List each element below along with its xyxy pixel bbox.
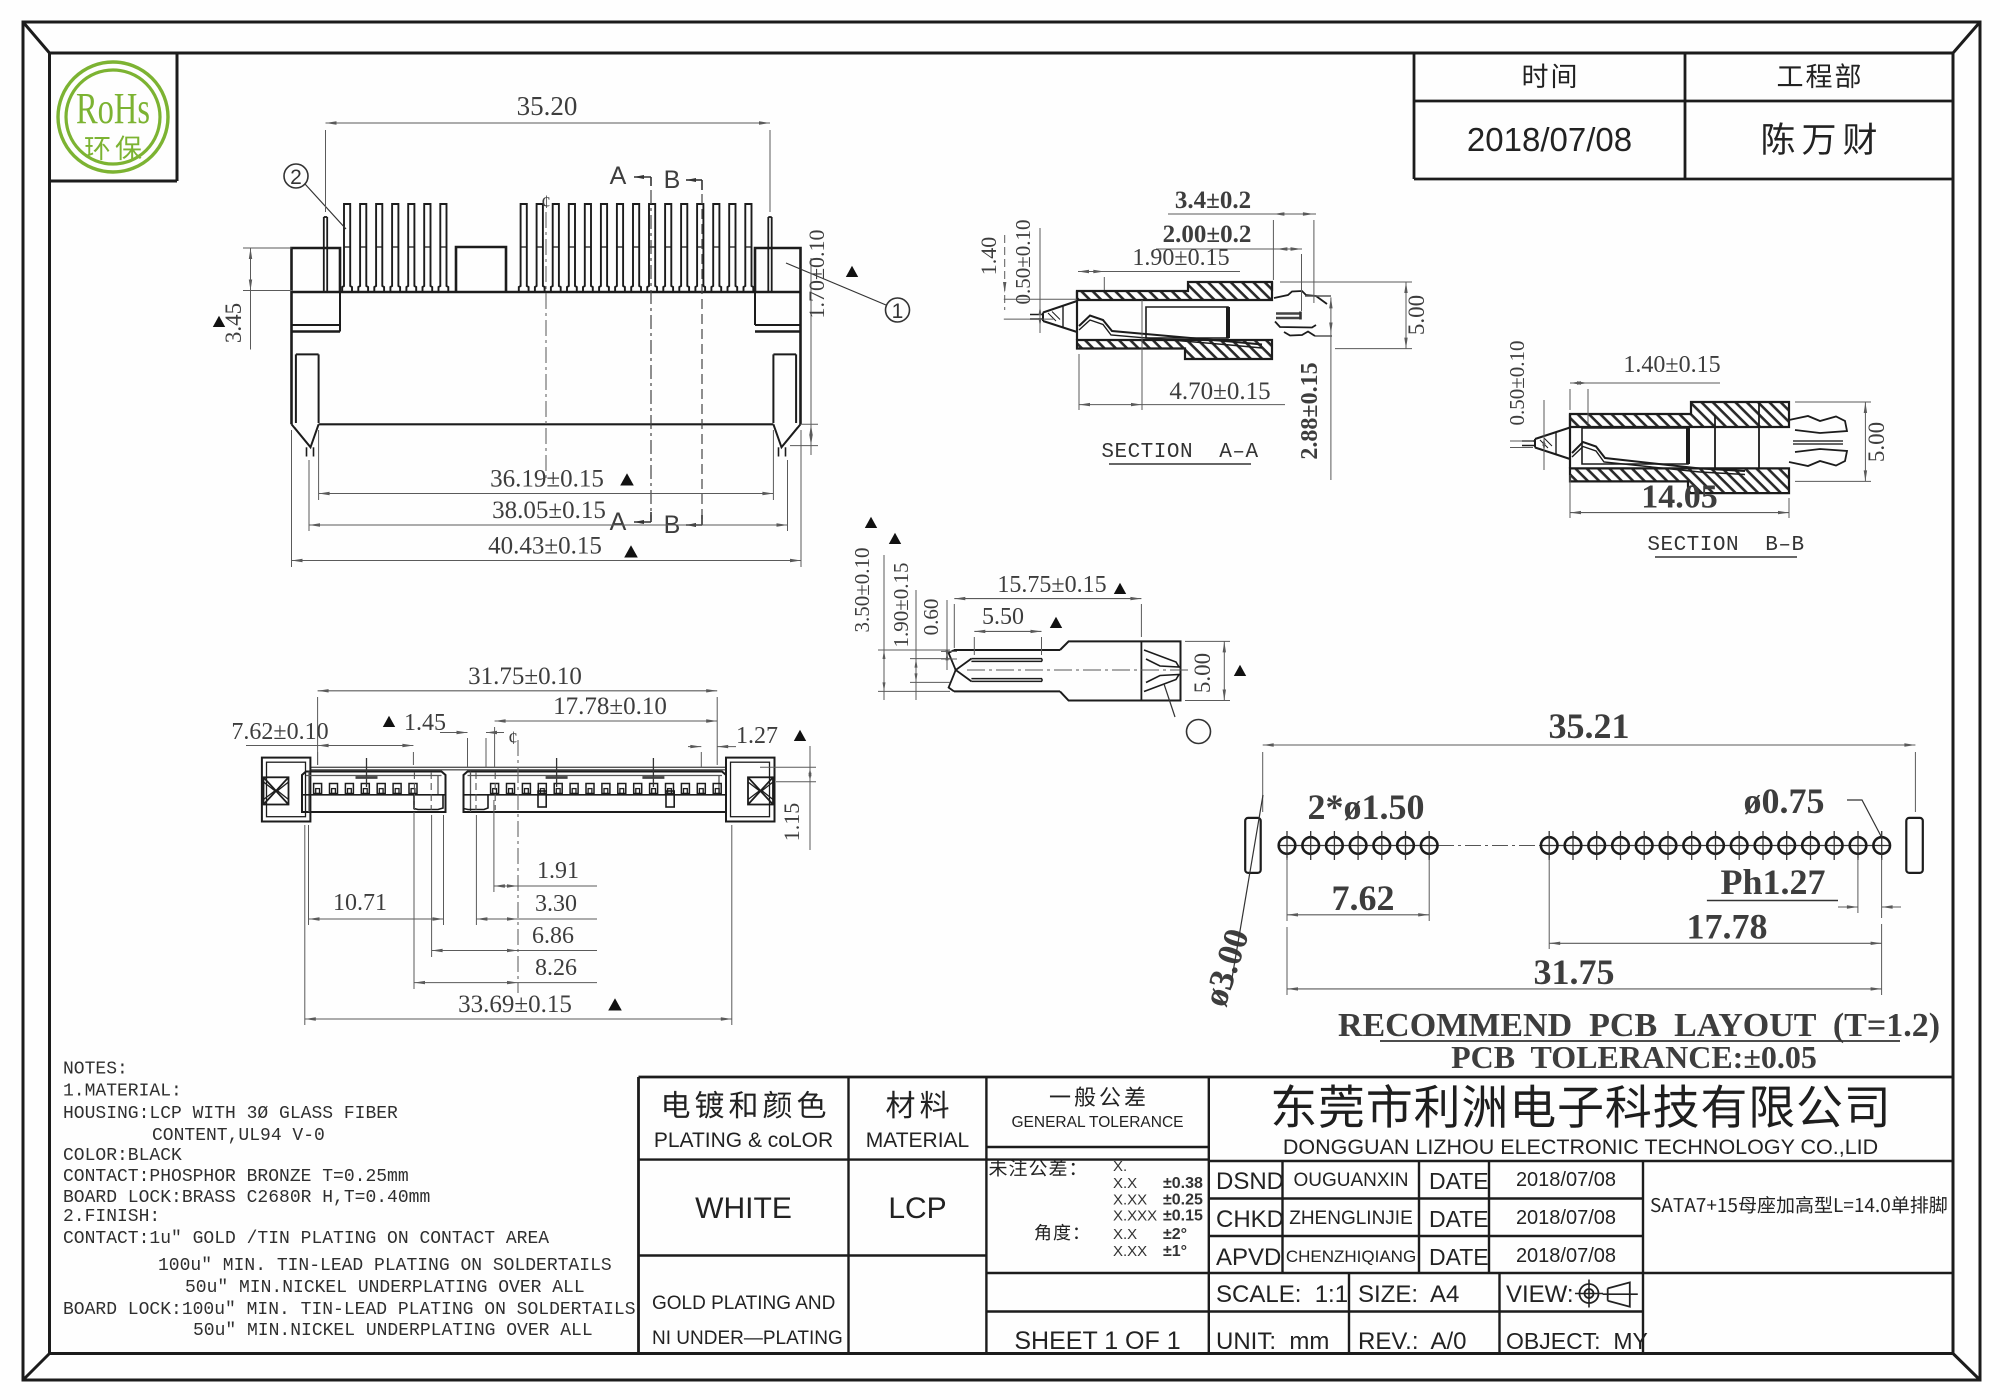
svg-text:REV.: A/0: REV.: A/0 (1358, 1328, 1467, 1355)
bottom view centerline (517, 740, 519, 993)
svg-text:3.4±0.2: 3.4±0.2 (1175, 187, 1251, 214)
svg-text:±0.38: ±0.38 (1163, 1175, 1203, 1192)
pcb dim 17.78 (1548, 858, 1550, 949)
svg-text:CONTACT:1u" GOLD /TIN PLATING: CONTACT:1u" GOLD /TIN PLATING ON CONTACT… (63, 1229, 549, 1249)
bv dim 33.69±0.15 (304, 825, 306, 1025)
svg-text:1.90±0.15: 1.90±0.15 (889, 562, 913, 647)
svg-text:0.50±0.10: 0.50±0.10 (1011, 219, 1035, 304)
svg-text:2018/07/08: 2018/07/08 (1516, 1207, 1616, 1229)
svg-text:DATE: DATE (1429, 1206, 1489, 1232)
svg-text:38.05±0.15: 38.05±0.15 (492, 497, 606, 524)
front view centerline (545, 212, 547, 478)
svg-text:0.60: 0.60 (919, 599, 943, 636)
terminal detail view (954, 650, 1060, 691)
svg-text:CONTENT,UL94 V-0: CONTENT,UL94 V-0 (152, 1126, 325, 1146)
B-B dim 14.05 (1569, 475, 1571, 518)
svg-text:1.91: 1.91 (537, 858, 579, 884)
pcb dim 31.75 (1286, 927, 1288, 995)
svg-text:31.75±0.10: 31.75±0.10 (468, 663, 582, 690)
svg-text:BOARD LOCK:100u" MIN. TIN-LEAD: BOARD LOCK:100u" MIN. TIN-LEAD PLATING O… (63, 1300, 636, 1320)
RoHs logo box (176, 53, 179, 181)
svg-text:31.75: 31.75 (1534, 952, 1615, 992)
A-A dim 5.00 (1280, 281, 1412, 283)
svg-text:DATE: DATE (1429, 1168, 1489, 1194)
pcb dim 35.21 (1262, 752, 1264, 812)
svg-text:10.71: 10.71 (333, 890, 387, 916)
svg-text:3.30: 3.30 (535, 891, 577, 917)
front view: connector body outline (292, 291, 801, 294)
svg-text:GENERAL TOLERANCE: GENERAL TOLERANCE (1012, 1114, 1184, 1131)
svg-text:1.MATERIAL:: 1.MATERIAL: (63, 1082, 182, 1102)
bv dim 6.86 (431, 815, 433, 957)
front view: 7+15 solder pins (323, 217, 325, 292)
svg-text:OBJECT: MY: OBJECT: MY (1506, 1328, 1648, 1354)
svg-text:SHEET 1 OF 1: SHEET 1 OF 1 (1014, 1327, 1180, 1355)
bottom view: housing seen from below (310, 766, 726, 768)
svg-text:5.00: 5.00 (1404, 295, 1429, 335)
svg-text:1: 1 (892, 300, 904, 323)
svg-text:100u" MIN. TIN-LEAD PLATING ON: 100u" MIN. TIN-LEAD PLATING ON SOLDERTAI… (158, 1256, 612, 1276)
B-B dim 5.00 (1795, 401, 1871, 403)
svg-text:7.62: 7.62 (1332, 878, 1395, 918)
svg-text:COLOR:BLACK: COLOR:BLACK (63, 1146, 182, 1166)
title header table (1413, 53, 1416, 179)
svg-text:5.50: 5.50 (982, 604, 1024, 630)
title block texts (664, 1091, 825, 1119)
svg-text:Ph1.27: Ph1.27 (1720, 862, 1825, 902)
bv dim 17.78±0.10 (494, 727, 496, 768)
svg-text:2018/07/08: 2018/07/08 (1516, 1245, 1616, 1267)
bv dim 31.75±0.10 (317, 697, 319, 765)
svg-text:X.X: X.X (1113, 1226, 1137, 1243)
dim 38.05±0.15 (308, 460, 310, 531)
svg-text:BOARD LOCK:BRASS C2680R H,T=0.: BOARD LOCK:BRASS C2680R H,T=0.40mm (63, 1188, 430, 1208)
balloon label 2 (305, 184, 346, 229)
svg-text:1.40±0.15: 1.40±0.15 (1623, 352, 1720, 378)
svg-text:40.43±0.15: 40.43±0.15 (488, 533, 602, 560)
bv dim 10.71 (308, 825, 310, 925)
svg-text:SIZE: A4: SIZE: A4 (1358, 1281, 1459, 1308)
bv dim 1.91 (493, 800, 495, 892)
svg-text:X.XX: X.XX (1113, 1192, 1147, 1209)
svg-text:¢: ¢ (508, 728, 518, 749)
svg-text:50u" MIN.NICKEL UNDERPLATING O: 50u" MIN.NICKEL UNDERPLATING OVER ALL (193, 1321, 593, 1341)
svg-text:HOUSING:LCP WITH 3Ø GLASS FIBE: HOUSING:LCP WITH 3Ø GLASS FIBER (63, 1104, 398, 1124)
svg-text:CHKD: CHKD (1216, 1206, 1284, 1233)
svg-text:DATE: DATE (1429, 1244, 1489, 1270)
svg-text:NI UNDER—PLATING: NI UNDER—PLATING (652, 1328, 843, 1349)
svg-text:CHENZHIQIANG: CHENZHIQIANG (1286, 1247, 1416, 1266)
A-A dim 2.88±0.15 (1330, 297, 1332, 480)
svg-text:1.45: 1.45 (404, 710, 446, 736)
bv dim 1.45 (383, 716, 395, 727)
svg-text:±0.25: ±0.25 (1163, 1192, 1203, 1209)
svg-text:1.15: 1.15 (779, 803, 804, 842)
dim 35.20 (325, 130, 327, 212)
dim 3.45 (250, 248, 252, 350)
svg-text:2.00±0.2: 2.00±0.2 (1163, 221, 1252, 248)
A-A dim 4.70±0.15 (1078, 354, 1080, 410)
svg-text:APVD: APVD (1216, 1244, 1281, 1271)
svg-text:CONTACT:PHOSPHOR BRONZE T=0.25: CONTACT:PHOSPHOR BRONZE T=0.25mm (63, 1167, 409, 1187)
svg-text:5.00: 5.00 (1864, 422, 1889, 462)
svg-text:17.78±0.10: 17.78±0.10 (553, 693, 667, 720)
svg-text:50u" MIN.NICKEL UNDERPLATING O: 50u" MIN.NICKEL UNDERPLATING OVER ALL (185, 1278, 585, 1298)
svg-text:2: 2 (290, 166, 302, 189)
svg-text:±0.15: ±0.15 (1163, 1208, 1203, 1225)
svg-text:X.XX: X.XX (1113, 1243, 1147, 1260)
svg-text:5.00: 5.00 (1190, 653, 1215, 693)
svg-text:GOLD PLATING AND: GOLD PLATING AND (652, 1293, 835, 1314)
recommended PCB layout (1245, 818, 1261, 873)
pcb dim 7.62 (1286, 858, 1288, 921)
svg-text:DONGGUAN LIZHOU ELECTRONIC TEC: DONGGUAN LIZHOU ELECTRONIC TECHNOLOGY CO… (1283, 1135, 1878, 1159)
svg-text:7.62±0.10: 7.62±0.10 (231, 719, 328, 745)
svg-text:X.: X. (1113, 1158, 1127, 1175)
front view: board-lock pegs (296, 353, 319, 355)
svg-text:X.X: X.X (1113, 1175, 1137, 1192)
svg-text:ø0.75: ø0.75 (1744, 781, 1825, 821)
bv dim 8.26 (413, 812, 415, 989)
svg-text:PCB TOLERANCE:±0.05: PCB TOLERANCE:±0.05 (1451, 1039, 1817, 1075)
svg-text:3.50±0.10: 3.50±0.10 (850, 547, 874, 632)
terminal dim 5.00 (1185, 640, 1230, 642)
svg-text:3.45: 3.45 (221, 303, 246, 343)
dim 40.43±0.15 (291, 430, 293, 567)
terminal balloon circle (1164, 684, 1175, 717)
svg-text:2.FINISH:: 2.FINISH: (63, 1207, 160, 1227)
svg-text:X.XXX: X.XXX (1113, 1208, 1157, 1225)
svg-text:A: A (610, 162, 627, 190)
svg-text:17.78: 17.78 (1687, 906, 1768, 946)
balloon label 1 (786, 263, 886, 305)
svg-text:DSND: DSND (1216, 1168, 1284, 1195)
svg-text:6.86: 6.86 (532, 923, 574, 949)
svg-text:VIEW:: VIEW: (1506, 1281, 1574, 1308)
svg-text:1.27: 1.27 (736, 723, 778, 749)
svg-text:1.90±0.15: 1.90±0.15 (1132, 245, 1229, 271)
svg-text:OUGUANXIN: OUGUANXIN (1293, 1170, 1408, 1191)
svg-text:±2°: ±2° (1163, 1226, 1187, 1243)
svg-text:33.69±0.15: 33.69±0.15 (458, 991, 572, 1018)
svg-text:B: B (664, 166, 681, 194)
svg-text:ZHENGLINJIE: ZHENGLINJIE (1289, 1208, 1413, 1229)
svg-text:2018/07/08: 2018/07/08 (1516, 1169, 1616, 1191)
section B-B: terminal in housing cross-section (1570, 402, 1789, 427)
svg-text:0.50±0.10: 0.50±0.10 (1505, 340, 1529, 425)
svg-text:2*ø1.50: 2*ø1.50 (1308, 787, 1425, 827)
svg-text:2018/07/08: 2018/07/08 (1467, 121, 1632, 158)
bv dim 1.15 (760, 766, 816, 768)
dim 36.19±0.15 (318, 430, 320, 500)
svg-text:1.40: 1.40 (976, 237, 1001, 276)
svg-text:1.70±0.10: 1.70±0.10 (804, 229, 829, 318)
section A-A: terminal in housing cross-section (1077, 282, 1272, 300)
svg-text:SCALE: 1:1: SCALE: 1:1 (1216, 1281, 1348, 1308)
third angle projection symbol (1580, 1284, 1599, 1303)
svg-text:¢: ¢ (541, 192, 551, 213)
svg-text:14.05: 14.05 (1641, 479, 1718, 516)
svg-text:NOTES:: NOTES: (63, 1060, 128, 1080)
svg-text:36.19±0.15: 36.19±0.15 (490, 466, 604, 493)
svg-text:35.20: 35.20 (517, 91, 578, 121)
svg-text:RoHs: RoHs (76, 84, 150, 133)
title block table lines (639, 1076, 1954, 1079)
svg-text:PLATING & coLOR: PLATING & coLOR (654, 1129, 833, 1152)
svg-text:MATERIAL: MATERIAL (866, 1129, 969, 1152)
svg-text:8.26: 8.26 (535, 955, 577, 981)
bv dim 3.30 (475, 815, 477, 925)
svg-text:SECTION B–B: SECTION B–B (1647, 534, 1804, 557)
svg-text:UNIT: mm: UNIT: mm (1216, 1328, 1329, 1355)
svg-text:A: A (610, 508, 627, 536)
svg-text:SECTION A–A: SECTION A–A (1101, 441, 1258, 464)
svg-text:2.88±0.15: 2.88±0.15 (1297, 362, 1323, 459)
svg-text:15.75±0.15: 15.75±0.15 (997, 572, 1106, 598)
svg-text:WHITE: WHITE (695, 1192, 792, 1225)
svg-text:4.70±0.15: 4.70±0.15 (1169, 378, 1270, 405)
dim 1.70±0.10 (801, 423, 818, 425)
svg-text:±1°: ±1° (1163, 1243, 1187, 1260)
svg-text:LCP: LCP (888, 1192, 946, 1225)
svg-text:35.21: 35.21 (1549, 706, 1630, 746)
